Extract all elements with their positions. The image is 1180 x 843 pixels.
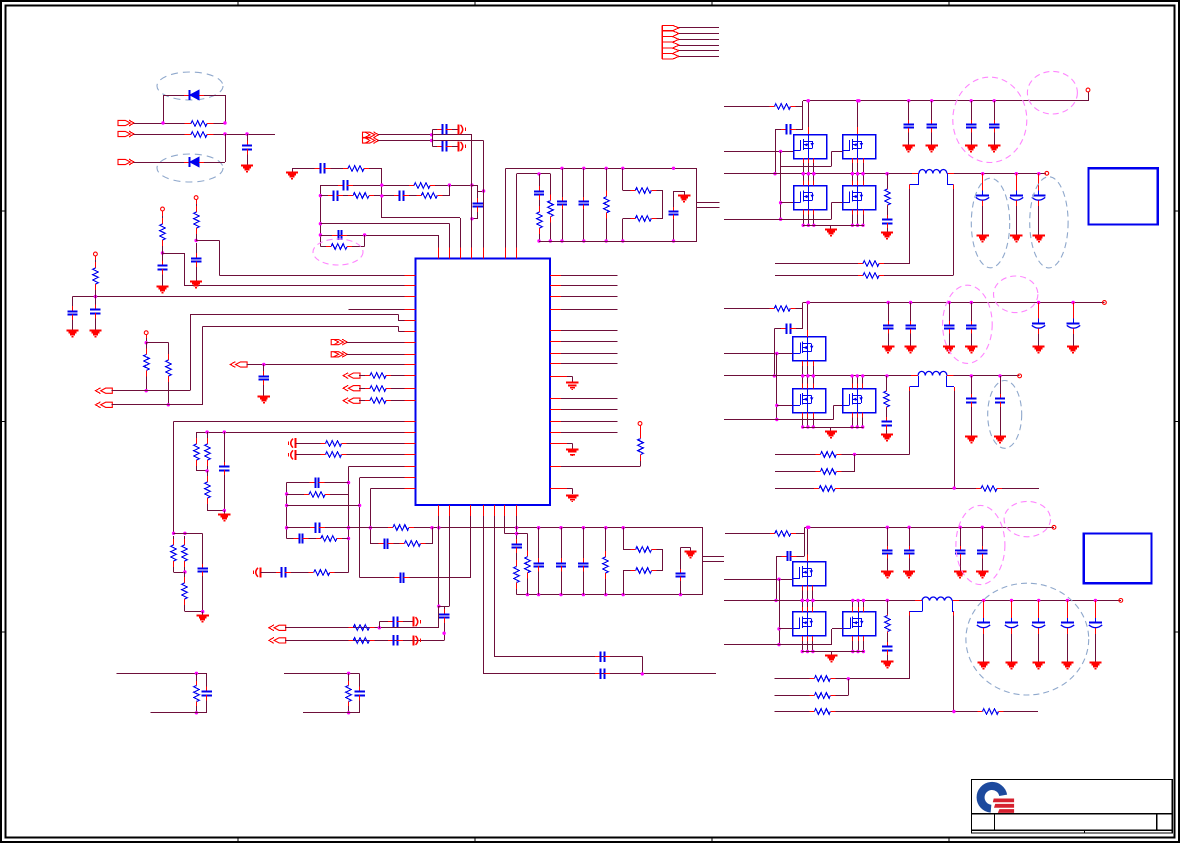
terminal (1119, 599, 1123, 603)
capacitor C17 (579, 197, 589, 209)
wire (225, 134, 227, 162)
junction (223, 132, 226, 135)
port P4 (96, 388, 113, 394)
wire (505, 505, 517, 533)
capacitor C7 (315, 163, 331, 173)
junction (537, 526, 540, 529)
wire (680, 547, 682, 569)
wire (stub) (1038, 174, 1040, 184)
ground (190, 277, 202, 288)
wire (stub) (982, 174, 984, 184)
port P15 (269, 638, 286, 644)
junction (582, 167, 585, 170)
wire (stub) (812, 585, 814, 590)
junction (559, 593, 562, 596)
capacitor C54 (904, 546, 914, 559)
junction (774, 599, 777, 602)
wire (214, 123, 226, 125)
resistor R4 (194, 204, 200, 236)
wire (538, 571, 540, 594)
wire (stub) (852, 158, 854, 163)
wire (stub) (915, 600, 922, 602)
wire (gnd bus) (802, 651, 864, 653)
junction (847, 677, 850, 680)
wire (gnd bus) (803, 427, 864, 429)
wire (drain pin) (807, 330, 809, 337)
terminal (1018, 374, 1022, 378)
junction (621, 239, 624, 242)
junction (885, 374, 888, 377)
junction (812, 172, 815, 175)
wire (776, 556, 778, 600)
port P9 (343, 373, 360, 379)
wire (775, 488, 814, 490)
capacitor C47 (883, 321, 893, 334)
wire (775, 471, 816, 473)
wire (switch rail) (724, 600, 922, 602)
wire (196, 432, 415, 434)
wire (470, 505, 472, 577)
wire (stub) (1016, 174, 1018, 184)
junction (807, 301, 810, 304)
wire (rail) (325, 527, 388, 529)
wire (134, 162, 185, 164)
wire (982, 559, 984, 568)
wire (185, 607, 203, 612)
junction (380, 183, 383, 186)
ground (926, 142, 938, 152)
junction (380, 194, 383, 197)
junction (806, 526, 809, 529)
wire (887, 633, 889, 642)
wire (379, 622, 381, 628)
wire (439, 606, 450, 608)
wire (rail) (287, 527, 310, 529)
wire (347, 454, 416, 456)
resistor R1 (185, 121, 214, 127)
IC U1 (415, 258, 550, 505)
wire (287, 494, 304, 496)
wire (887, 206, 889, 215)
resistor R37 (631, 547, 657, 553)
capacitor C36 (202, 677, 212, 710)
capacitor C3 (191, 243, 201, 277)
junction (851, 224, 854, 227)
wire (174, 533, 203, 535)
wire (679, 33, 719, 35)
ground (89, 326, 101, 337)
capacitor C6 (259, 365, 269, 393)
wire (550, 421, 617, 423)
wire (stub) (812, 607, 814, 612)
ground (684, 547, 696, 557)
wire (775, 454, 816, 456)
wire (switch rail) (947, 375, 1020, 377)
wire (stub) (857, 383, 859, 388)
capacitor C4 (67, 300, 77, 326)
wire (stub) (802, 361, 804, 366)
wire (550, 296, 617, 298)
capacitor C2 (157, 253, 167, 282)
capacitor C29 (578, 558, 588, 571)
wire (95, 292, 97, 297)
junction (807, 526, 810, 529)
ground (1089, 658, 1101, 669)
wire (370, 543, 378, 545)
junction (775, 352, 778, 355)
ground (557, 376, 579, 389)
junction (806, 301, 809, 304)
wire (909, 559, 911, 568)
junction (195, 672, 198, 675)
junction (672, 239, 675, 242)
junction (183, 570, 186, 573)
wire (409, 577, 471, 579)
capacitor C48 (905, 321, 915, 334)
junction (605, 239, 608, 242)
wire (931, 133, 933, 142)
capacitor C5 (90, 297, 100, 326)
resistor R31 (316, 536, 342, 542)
wire (550, 285, 617, 287)
junction (777, 627, 780, 630)
capacitor C46 (781, 323, 796, 333)
wire (stub) (852, 412, 854, 417)
wire (679, 45, 719, 47)
junction (604, 593, 607, 596)
port P13 (363, 138, 379, 144)
wire (stub) (852, 210, 854, 215)
wire (stub) (852, 383, 854, 388)
wire (382, 218, 461, 259)
wire (stub) (858, 636, 860, 641)
junction (886, 599, 889, 602)
resistor R9 (365, 386, 391, 392)
capacitor C34 (388, 635, 403, 645)
wire (696, 168, 698, 241)
wire (1004, 711, 1039, 713)
capacitor C33 (388, 617, 403, 627)
wire (982, 527, 984, 546)
transistor Q1 (793, 134, 826, 159)
wire (320, 235, 438, 258)
junction (812, 374, 815, 377)
resistor R20 (630, 216, 656, 222)
ground (825, 225, 837, 235)
junction (857, 99, 860, 102)
highlight ellipse (994, 276, 1038, 313)
wire (112, 315, 416, 391)
junction (1010, 599, 1013, 602)
wire (342, 538, 349, 540)
wire (287, 505, 360, 507)
resistor R23 (182, 536, 188, 570)
polarized terminal (414, 617, 421, 627)
wire (stub) (857, 181, 859, 186)
resistor R32 (400, 541, 426, 547)
resistor R56 (815, 452, 841, 458)
wire (stub) (983, 600, 985, 611)
wire (112, 326, 416, 404)
wire (stub) (807, 412, 809, 417)
junction (851, 172, 854, 175)
ground (1033, 343, 1045, 353)
junction (1037, 599, 1040, 602)
wire (196, 432, 198, 436)
wire (stub) (802, 585, 804, 590)
wire (stub) (863, 210, 865, 215)
junction (430, 526, 433, 529)
port P6 (230, 362, 247, 368)
wire (539, 200, 541, 206)
capacitor (966, 394, 976, 407)
wire (725, 533, 770, 535)
wire (stub) (807, 383, 809, 388)
ground (1033, 658, 1045, 669)
terminal (161, 207, 165, 211)
wire (196, 236, 198, 241)
connector header J1 (662, 25, 679, 59)
resistor R39 (348, 625, 374, 631)
wire (359, 478, 361, 578)
ground (825, 652, 837, 662)
resistor R6 (144, 343, 150, 382)
junction (802, 172, 805, 175)
junction (1094, 599, 1097, 602)
wire (472, 218, 478, 220)
wire (775, 695, 810, 697)
wire (360, 577, 395, 579)
capacitor C15 (534, 186, 544, 200)
wire (switch rail) (947, 173, 1046, 175)
ground (1010, 231, 1022, 242)
wire (stub) (1038, 600, 1040, 611)
wire (841, 454, 854, 472)
wire (stub) (808, 158, 810, 163)
ground (1005, 658, 1017, 669)
junction (470, 217, 473, 220)
wire (931, 101, 933, 120)
wire (inductor left jog) (918, 174, 920, 185)
junction (1037, 172, 1040, 175)
wire (162, 248, 164, 253)
wire (796, 328, 803, 330)
highlight ellipse (1027, 71, 1077, 114)
port P11 (343, 398, 360, 404)
wire (779, 628, 792, 630)
resistor R25 (194, 436, 200, 468)
resistor R61 (885, 614, 891, 633)
wire (908, 101, 910, 120)
wire (442, 185, 449, 196)
wire (320, 224, 449, 259)
junction (970, 374, 973, 377)
wire (rail) (517, 594, 703, 596)
polarized terminal (459, 141, 466, 151)
resistor R7 (166, 350, 172, 386)
wire (359, 388, 365, 390)
wire (679, 27, 719, 29)
junction (363, 233, 366, 236)
junction (775, 404, 778, 407)
highlight ellipse (943, 285, 993, 363)
wire (stub) (857, 158, 859, 163)
wire (774, 329, 776, 376)
wire (207, 468, 209, 471)
resistor R5 (93, 260, 99, 292)
capacitor C32 (595, 669, 610, 679)
wire (433, 129, 437, 131)
polarized capacitor (1032, 612, 1045, 635)
wire (204, 162, 225, 164)
wire (1016, 206, 1018, 231)
junction (347, 672, 350, 675)
junction (205, 430, 208, 433)
capacitor C14 (437, 141, 452, 151)
wire (stub) (802, 412, 804, 417)
resistor R64 (809, 709, 835, 715)
capacitor C23 (378, 539, 393, 549)
wire (776, 354, 778, 420)
junction (779, 218, 782, 221)
junction (861, 374, 864, 377)
resistor R8 (365, 373, 391, 379)
capacitor C18 (668, 207, 678, 219)
wire (bracket) (432, 129, 434, 146)
junction (801, 374, 804, 377)
wire (673, 219, 675, 241)
wire (562, 168, 564, 197)
junction (806, 99, 809, 102)
wire (207, 471, 209, 474)
junction (861, 172, 864, 175)
port P10 (343, 385, 360, 391)
ground (965, 142, 977, 152)
capacitor C16 (557, 197, 567, 209)
highlight ellipse (1030, 177, 1068, 268)
junction (347, 537, 350, 540)
junction (861, 224, 864, 227)
wire (679, 50, 719, 52)
wire (724, 644, 832, 646)
wire (1000, 376, 1002, 394)
wire (370, 488, 415, 490)
wire (550, 309, 617, 311)
transistor Q8 (792, 561, 825, 585)
wire (1067, 634, 1069, 658)
ground (241, 161, 253, 172)
port P7 (331, 339, 347, 345)
resistor R2 (185, 132, 214, 138)
wire (348, 309, 415, 311)
junction (537, 172, 540, 175)
junction (885, 172, 888, 175)
polarized terminal (254, 567, 261, 577)
wire (435, 185, 472, 187)
junction (856, 172, 859, 175)
wire (433, 146, 437, 148)
wire (348, 673, 350, 681)
wire (409, 195, 416, 197)
highlight ellipse (313, 239, 363, 265)
wire (539, 234, 541, 241)
wire (516, 505, 518, 536)
wire (168, 386, 170, 405)
wire (349, 466, 416, 468)
capacitor C37 (354, 677, 364, 710)
junction (856, 650, 859, 653)
capacitor C55 (955, 546, 965, 559)
wire (775, 129, 777, 174)
wire (134, 123, 185, 125)
wire (134, 134, 185, 136)
wire (796, 129, 803, 131)
transistor Q9 (792, 612, 825, 636)
wire (348, 706, 350, 713)
wire (550, 376, 557, 378)
resistor R63 (809, 693, 835, 699)
wire (stub) (807, 585, 809, 590)
junction (430, 139, 433, 142)
junction (812, 172, 815, 175)
wire (1073, 334, 1075, 343)
wire (426, 543, 433, 545)
ground (66, 326, 78, 337)
wire (stub) (813, 412, 815, 417)
junction (850, 425, 853, 428)
resistor R54 (769, 306, 795, 312)
wire (550, 275, 617, 277)
capacitor C19 (198, 564, 208, 576)
wire (971, 407, 973, 433)
wire (605, 582, 607, 595)
junction (622, 526, 625, 529)
junction (851, 650, 854, 653)
junction (378, 626, 381, 629)
junction (856, 224, 859, 227)
wire (886, 408, 888, 417)
junction (145, 341, 148, 344)
junction (369, 526, 372, 529)
junction (161, 251, 164, 254)
capacitor C13 (437, 124, 452, 134)
wire (stub) (857, 210, 859, 215)
junction (1066, 599, 1069, 602)
wire (775, 678, 810, 680)
wire (780, 151, 782, 219)
junction (319, 222, 322, 225)
wire (285, 627, 439, 629)
wire (116, 673, 207, 677)
diode D2 (184, 157, 204, 167)
wire (369, 168, 382, 218)
wire (623, 218, 631, 241)
capacitor C28 (556, 558, 566, 571)
junction (777, 643, 780, 646)
capacitor C41 (904, 120, 914, 133)
ground (678, 191, 690, 201)
port P5 (96, 402, 113, 408)
wire (910, 303, 912, 322)
resistor R60 (770, 531, 796, 537)
wire (550, 443, 557, 445)
capacitor C40 (781, 124, 796, 134)
junction (319, 194, 322, 197)
transistor Q2 (842, 134, 875, 159)
wire (887, 527, 889, 546)
wire (994, 101, 996, 120)
wire (inductor right jog) (952, 600, 954, 611)
